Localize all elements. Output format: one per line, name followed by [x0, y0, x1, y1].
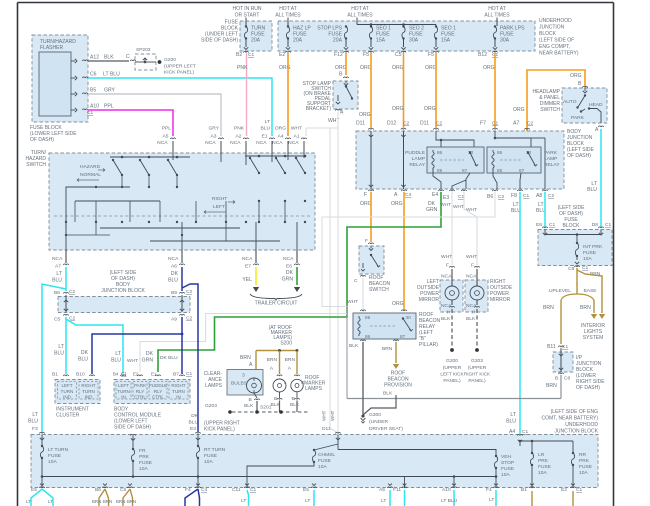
svg-text:PPL: PPL — [104, 104, 114, 110]
svg-text:10A: 10A — [579, 470, 588, 476]
svg-text:10A: 10A — [318, 464, 327, 470]
svg-text:E3: E3 — [190, 426, 196, 432]
svg-text:B6: B6 — [54, 290, 60, 296]
svg-text:BLK: BLK — [441, 316, 451, 322]
svg-text:C: C — [354, 278, 358, 284]
svg-text:C1: C1 — [87, 110, 93, 116]
svg-text:E1: E1 — [151, 372, 157, 377]
svg-text:ORG: ORG — [392, 106, 404, 112]
svg-text:BLK: BLK — [349, 343, 359, 349]
svg-text:B4: B4 — [113, 372, 119, 377]
svg-text:E2: E2 — [133, 372, 139, 377]
svg-text:ORG: ORG — [360, 201, 372, 207]
svg-text:C1: C1 — [549, 222, 555, 228]
svg-text:TURN: TURN — [61, 389, 74, 394]
svg-text:C11: C11 — [232, 487, 241, 493]
svg-text:15A: 15A — [376, 38, 386, 44]
svg-text:D11: D11 — [356, 121, 365, 127]
svg-text:F12: F12 — [334, 52, 343, 58]
svg-text:PRK: PRK — [139, 454, 150, 460]
svg-text:PUDDLE: PUDDLE — [405, 150, 426, 156]
svg-text:COMT, NEAR BATTERY): COMT, NEAR BATTERY) — [542, 416, 599, 422]
svg-text:BLK: BLK — [271, 402, 281, 408]
svg-text:LT: LT — [26, 499, 31, 504]
svg-text:NCA: NCA — [242, 256, 253, 262]
svg-text:NORMAL: NORMAL — [80, 172, 101, 178]
svg-text:LT: LT — [32, 412, 38, 418]
svg-text:RELAY: RELAY — [409, 162, 425, 168]
svg-text:NCA: NCA — [272, 140, 283, 146]
svg-text:FUSE: FUSE — [538, 464, 552, 470]
svg-text:A3: A3 — [211, 134, 217, 140]
svg-text:BLU: BLU — [260, 126, 270, 132]
svg-text:C2: C2 — [527, 121, 533, 127]
svg-text:E1: E1 — [262, 134, 268, 140]
svg-text:BLU: BLU — [52, 278, 62, 284]
svg-text:30A: 30A — [409, 38, 419, 44]
svg-text:PARK: PARK — [134, 383, 146, 388]
svg-text:SWITCH: SWITCH — [26, 162, 46, 168]
svg-text:85: 85 — [437, 168, 443, 173]
svg-text:B: B — [249, 397, 252, 403]
svg-text:C2: C2 — [69, 289, 75, 295]
svg-text:NCA: NCA — [157, 140, 168, 146]
svg-text:A10: A10 — [90, 104, 99, 110]
svg-text:86: 86 — [437, 150, 443, 155]
svg-text:A9: A9 — [171, 317, 177, 323]
svg-text:HOT AT: HOT AT — [351, 6, 369, 12]
svg-text:F11: F11 — [393, 487, 401, 493]
svg-text:LT: LT — [58, 344, 64, 350]
svg-text:C5: C5 — [395, 52, 402, 58]
svg-text:LAMP: LAMP — [544, 156, 557, 162]
svg-text:C4: C4 — [405, 192, 411, 198]
svg-text:LR: LR — [538, 452, 545, 458]
svg-text:TURN: TURN — [172, 389, 185, 394]
svg-text:B9: B9 — [171, 290, 177, 296]
svg-text:D11: D11 — [322, 426, 331, 432]
svg-text:F5: F5 — [363, 52, 369, 58]
svg-text:10A: 10A — [204, 459, 213, 465]
svg-text:HOT AT: HOT AT — [279, 6, 297, 12]
svg-text:D8: D8 — [592, 222, 599, 228]
svg-text:BRN: BRN — [543, 305, 554, 311]
svg-text:BASE: BASE — [583, 288, 597, 294]
svg-text:A10: A10 — [442, 487, 451, 493]
svg-text:C6: C6 — [90, 72, 97, 78]
svg-text:LEFT KICK: LEFT KICK — [440, 372, 464, 377]
svg-text:BLK: BLK — [244, 403, 254, 409]
svg-text:RIGHT: RIGHT — [212, 196, 227, 202]
svg-text:LT: LT — [241, 498, 246, 504]
svg-text:B: B — [339, 72, 343, 78]
svg-text:H: H — [472, 310, 476, 316]
svg-text:IND: IND — [63, 395, 72, 400]
svg-text:BRN: BRN — [580, 305, 591, 311]
svg-text:A: A — [249, 362, 253, 368]
svg-text:A6: A6 — [171, 264, 177, 270]
svg-text:ORG: ORG — [424, 106, 436, 112]
svg-text:87: 87 — [462, 168, 468, 173]
svg-text:SP203: SP203 — [136, 47, 151, 53]
svg-text:HAZARD: HAZARD — [80, 164, 101, 170]
svg-text:DK: DK — [286, 270, 294, 276]
svg-text:FUSE: FUSE — [204, 453, 218, 459]
svg-text:FUSE: FUSE — [501, 466, 515, 472]
svg-text:IND: IND — [85, 395, 94, 400]
svg-text:30A: 30A — [500, 38, 510, 44]
svg-text:3: 3 — [242, 373, 245, 379]
svg-text:JUNCTION BLOCK: JUNCTION BLOCK — [554, 429, 598, 435]
svg-text:BRN: BRN — [103, 499, 112, 504]
svg-text:F: F — [365, 238, 368, 244]
svg-text:WHT: WHT — [291, 126, 302, 132]
svg-text:86: 86 — [497, 150, 503, 155]
svg-text:ALL TIMES: ALL TIMES — [347, 12, 373, 18]
svg-text:A: A — [394, 192, 398, 198]
svg-text:C1: C1 — [248, 52, 254, 58]
svg-text:GRN: GRN — [426, 207, 438, 213]
svg-text:PILLAR): PILLAR) — [419, 342, 438, 348]
svg-text:ORG: ORG — [483, 65, 495, 71]
svg-text:PARK: PARK — [571, 115, 585, 121]
svg-text:PARK: PARK — [544, 150, 558, 156]
svg-text:BRN: BRN — [127, 499, 136, 504]
svg-text:B: B — [274, 396, 277, 402]
svg-text:C2: C2 — [186, 316, 192, 322]
svg-text:BRN: BRN — [92, 499, 101, 504]
svg-text:ORG: ORG — [391, 201, 403, 207]
svg-text:DK BLU: DK BLU — [160, 355, 178, 361]
svg-text:(UPPER: (UPPER — [468, 365, 487, 371]
svg-text:CTRL: CTRL — [152, 395, 164, 400]
svg-text:PRK: PRK — [579, 458, 590, 464]
svg-text:RLY: RLY — [154, 389, 163, 394]
svg-text:BLK: BLK — [466, 316, 476, 322]
svg-text:WHT: WHT — [127, 358, 138, 364]
svg-text:15A: 15A — [441, 38, 451, 44]
svg-text:CTRL: CTRL — [134, 395, 146, 400]
svg-text:B10: B10 — [76, 372, 85, 378]
svg-text:NCA: NCA — [256, 140, 267, 146]
svg-text:BRN: BRN — [546, 383, 557, 389]
svg-text:G200: G200 — [446, 358, 458, 364]
svg-text:GRN: GRN — [282, 277, 294, 283]
svg-text:G300: G300 — [369, 412, 381, 418]
svg-text:LEFT: LEFT — [118, 383, 129, 388]
svg-text:CHMSL: CHMSL — [318, 452, 335, 458]
svg-text:LT: LT — [510, 412, 516, 418]
svg-text:WHT: WHT — [441, 254, 452, 260]
svg-text:C1: C1 — [582, 265, 588, 271]
svg-text:UPLEVEL: UPLEVEL — [549, 288, 571, 294]
svg-text:E2: E2 — [279, 52, 285, 58]
svg-text:10A: 10A — [501, 472, 510, 478]
svg-text:BRN: BRN — [285, 357, 296, 363]
svg-text:LT: LT — [489, 497, 494, 503]
svg-text:YEL: YEL — [242, 277, 252, 283]
svg-text:20A: 20A — [293, 38, 303, 44]
svg-text:DRIVER SEAT): DRIVER SEAT) — [369, 426, 403, 432]
svg-text:WHT: WHT — [466, 207, 477, 213]
svg-text:PANEL): PANEL) — [443, 378, 461, 384]
svg-text:LT BLU: LT BLU — [103, 72, 120, 78]
svg-text:GRY: GRY — [104, 88, 116, 94]
svg-text:G203: G203 — [471, 358, 483, 364]
svg-text:FUSE: FUSE — [579, 464, 593, 470]
svg-text:WHT: WHT — [453, 204, 464, 210]
svg-text:OF DASH): OF DASH) — [576, 385, 600, 391]
svg-text:DK: DK — [146, 351, 154, 357]
svg-text:BLU: BLU — [111, 358, 121, 364]
svg-text:PANEL): PANEL) — [468, 378, 486, 384]
svg-text:C1: C1 — [492, 121, 498, 127]
svg-text:TURN: TURN — [117, 389, 130, 394]
svg-text:BLU: BLU — [78, 357, 88, 363]
svg-text:IN: IN — [176, 395, 181, 400]
svg-text:WHT: WHT — [322, 410, 327, 421]
svg-text:TURN: TURN — [82, 389, 95, 394]
svg-text:E6: E6 — [286, 264, 292, 270]
svg-text:STOP: STOP — [501, 460, 514, 466]
svg-text:(UPPER: (UPPER — [443, 365, 462, 371]
svg-text:C1: C1 — [523, 193, 529, 199]
svg-text:ORG: ORG — [392, 65, 404, 71]
svg-text:G203: G203 — [205, 403, 217, 409]
svg-text:A12: A12 — [90, 55, 99, 61]
svg-text:B7: B7 — [173, 372, 179, 378]
svg-text:GRN: GRN — [142, 358, 154, 364]
svg-text:SWITCH: SWITCH — [369, 287, 389, 293]
svg-text:RR: RR — [579, 452, 587, 458]
svg-text:OF DASH): OF DASH) — [567, 153, 591, 159]
svg-text:OF DASH): OF DASH) — [30, 137, 54, 143]
svg-text:BLU: BLU — [587, 187, 597, 193]
svg-text:30: 30 — [406, 315, 412, 320]
svg-text:ORG: ORG — [359, 112, 371, 118]
svg-text:ALL TIMES: ALL TIMES — [484, 12, 510, 18]
svg-text:85: 85 — [365, 315, 371, 320]
svg-text:C5: C5 — [54, 317, 61, 323]
svg-text:A7: A7 — [513, 121, 519, 127]
svg-text:BRN: BRN — [382, 346, 393, 352]
svg-text:F3: F3 — [32, 426, 38, 432]
svg-text:C5: C5 — [120, 487, 127, 493]
svg-text:ALL TIMES: ALL TIMES — [275, 12, 301, 18]
svg-text:PUDDLE: PUDDLE — [149, 383, 167, 388]
svg-text:FR: FR — [139, 448, 146, 454]
svg-text:HOT IN RUN: HOT IN RUN — [232, 6, 261, 12]
svg-text:D12: D12 — [387, 121, 397, 127]
svg-text:LT: LT — [381, 498, 386, 504]
svg-text:A5: A5 — [163, 134, 169, 140]
svg-text:B12: B12 — [478, 52, 487, 58]
svg-text:E5: E5 — [303, 487, 309, 493]
svg-text:B: B — [292, 396, 295, 402]
svg-text:LT: LT — [48, 499, 53, 504]
svg-text:KICK PANEL): KICK PANEL) — [164, 70, 194, 76]
svg-text:BLU: BLU — [168, 278, 178, 284]
svg-text:86: 86 — [365, 334, 371, 339]
svg-text:A5: A5 — [379, 487, 385, 493]
svg-text:ORG: ORG — [392, 301, 404, 307]
svg-text:B1: B1 — [52, 372, 58, 378]
svg-text:A: A — [595, 127, 599, 133]
svg-text:C1: C1 — [186, 371, 192, 377]
svg-text:B2: B2 — [236, 52, 242, 58]
svg-text:PRK: PRK — [538, 458, 549, 464]
svg-text:(LEFT SIDE OF: (LEFT SIDE OF — [539, 38, 574, 44]
svg-text:ORG: ORG — [570, 73, 582, 79]
svg-text:NEAR BATTERY): NEAR BATTERY) — [539, 51, 579, 57]
svg-text:10A: 10A — [139, 466, 148, 472]
svg-text:PNK: PNK — [237, 65, 248, 71]
svg-text:85: 85 — [497, 168, 503, 173]
svg-text:(LEFT SIDE OF ENG: (LEFT SIDE OF ENG — [551, 409, 599, 415]
svg-text:SWITCH: SWITCH — [540, 107, 560, 113]
svg-text:RIGHT KICK: RIGHT KICK — [464, 372, 491, 377]
svg-text:LAMP: LAMP — [412, 156, 425, 162]
svg-text:A2: A2 — [236, 134, 242, 140]
svg-text:FUSE: FUSE — [48, 453, 62, 459]
svg-text:LAMPS: LAMPS — [205, 383, 223, 389]
svg-text:H: H — [447, 310, 451, 316]
svg-text:F4: F4 — [185, 487, 191, 493]
svg-text:BULBS: BULBS — [231, 381, 248, 387]
svg-text:GRY: GRY — [208, 126, 219, 132]
svg-text:BLK: BLK — [383, 391, 393, 397]
svg-text:DK: DK — [171, 271, 179, 277]
svg-text:20A: 20A — [333, 38, 343, 44]
svg-text:B: B — [578, 81, 582, 87]
svg-text:E8: E8 — [536, 222, 542, 228]
svg-text:FUSE: FUSE — [318, 458, 332, 464]
svg-text:C2: C2 — [498, 194, 504, 200]
svg-text:10A: 10A — [583, 256, 592, 262]
svg-text:BLU: BLU — [54, 351, 64, 357]
svg-text:LEFT: LEFT — [61, 383, 72, 388]
svg-text:NCA: NCA — [52, 256, 63, 262]
svg-text:BRN: BRN — [116, 499, 125, 504]
svg-text:FLASHER: FLASHER — [40, 45, 63, 51]
svg-text:CLUSTER: CLUSTER — [56, 413, 80, 419]
svg-text:SYSTEM: SYSTEM — [583, 335, 604, 341]
svg-text:C2: C2 — [548, 193, 554, 199]
svg-text:BLU: BLU — [188, 420, 198, 426]
svg-text:WHT: WHT — [330, 410, 335, 421]
svg-text:ORG: ORG — [335, 65, 347, 71]
svg-text:20A: 20A — [251, 38, 261, 44]
svg-text:JUNCTION: JUNCTION — [539, 25, 565, 31]
svg-text:F8: F8 — [511, 193, 517, 199]
svg-text:(UPPER LEFT: (UPPER LEFT — [164, 64, 196, 70]
svg-text:LT: LT — [265, 119, 270, 125]
svg-text:B5: B5 — [90, 88, 96, 94]
svg-text:FUSE: FUSE — [139, 460, 153, 466]
svg-text:NCA: NCA — [205, 140, 216, 146]
svg-text:G200: G200 — [164, 57, 176, 63]
svg-text:ORG: ORG — [275, 126, 286, 132]
svg-text:LT: LT — [56, 271, 62, 277]
svg-text:D11: D11 — [420, 121, 429, 127]
svg-text:C8: C8 — [564, 376, 570, 382]
svg-text:WHT: WHT — [347, 299, 358, 305]
svg-text:NCA: NCA — [230, 140, 241, 146]
svg-text:A7: A7 — [55, 264, 61, 270]
svg-text:ORG: ORG — [279, 65, 291, 71]
svg-text:C: C — [126, 54, 130, 60]
svg-text:LEFT: LEFT — [213, 204, 225, 210]
svg-text:87: 87 — [400, 334, 406, 339]
svg-text:HOT AT: HOT AT — [488, 6, 506, 12]
svg-text:C2: C2 — [436, 121, 442, 127]
svg-text:NCA: NCA — [288, 140, 299, 146]
svg-text:ORG: ORG — [425, 65, 437, 71]
svg-text:LT BLU: LT BLU — [441, 498, 458, 504]
svg-text:LAMPS: LAMPS — [305, 386, 323, 392]
svg-text:F7: F7 — [480, 121, 486, 127]
svg-text:A8: A8 — [536, 193, 542, 199]
svg-text:RIGHT: RIGHT — [171, 383, 185, 388]
svg-text:10A: 10A — [48, 459, 57, 465]
svg-text:PNK: PNK — [234, 126, 245, 132]
svg-text:AUTO: AUTO — [563, 99, 577, 105]
svg-text:S201: S201 — [260, 405, 272, 411]
svg-text:C1: C1 — [250, 487, 256, 493]
svg-text:C1: C1 — [562, 344, 568, 350]
svg-text:B6: B6 — [95, 487, 101, 493]
svg-text:LT TURN: LT TURN — [48, 447, 69, 453]
svg-text:ENG COMPT,: ENG COMPT, — [539, 44, 570, 50]
svg-text:RT TURN: RT TURN — [204, 447, 226, 453]
svg-text:DK: DK — [191, 413, 199, 419]
svg-text:B: B — [555, 376, 558, 382]
svg-text:PPL: PPL — [162, 126, 172, 132]
svg-text:FUSE: FUSE — [583, 250, 597, 256]
svg-text:KICK PANEL): KICK PANEL) — [204, 427, 235, 433]
svg-text:C2: C2 — [403, 121, 409, 127]
svg-text:B6: B6 — [487, 194, 493, 200]
svg-text:F5: F5 — [428, 52, 434, 58]
svg-text:LT: LT — [305, 498, 310, 504]
svg-text:SIDE OF DASH): SIDE OF DASH) — [201, 38, 238, 44]
svg-text:F: F — [364, 192, 367, 198]
svg-text:LT: LT — [115, 351, 121, 357]
svg-text:TRAILER CIRCUIT: TRAILER CIRCUIT — [255, 301, 298, 307]
svg-text:HEAD: HEAD — [589, 102, 603, 108]
svg-text:SIDE OF DASH): SIDE OF DASH) — [114, 425, 151, 431]
svg-text:RELAY: RELAY — [544, 162, 560, 168]
svg-text:ORG: ORG — [360, 65, 372, 71]
svg-text:DK: DK — [81, 350, 89, 356]
svg-text:BLU: BLU — [28, 419, 38, 425]
svg-text:BRACKET): BRACKET) — [306, 106, 332, 112]
svg-text:JUNCTION BLOCK: JUNCTION BLOCK — [101, 288, 145, 294]
svg-text:E3: E3 — [443, 195, 449, 201]
svg-text:RIGHT: RIGHT — [81, 383, 95, 388]
svg-text:C1: C1 — [605, 222, 611, 228]
svg-text:VEH: VEH — [501, 454, 512, 460]
svg-text:E7: E7 — [245, 264, 251, 270]
svg-text:F: F — [446, 263, 449, 269]
svg-text:WHT: WHT — [466, 254, 477, 260]
svg-text:E2: E2 — [561, 487, 567, 493]
svg-text:UNDERHOOD: UNDERHOOD — [539, 18, 572, 24]
svg-text:B11: B11 — [547, 344, 556, 350]
svg-text:C8: C8 — [568, 266, 575, 272]
svg-text:C1: C1 — [576, 487, 582, 493]
svg-text:MIRROR: MIRROR — [490, 297, 511, 303]
